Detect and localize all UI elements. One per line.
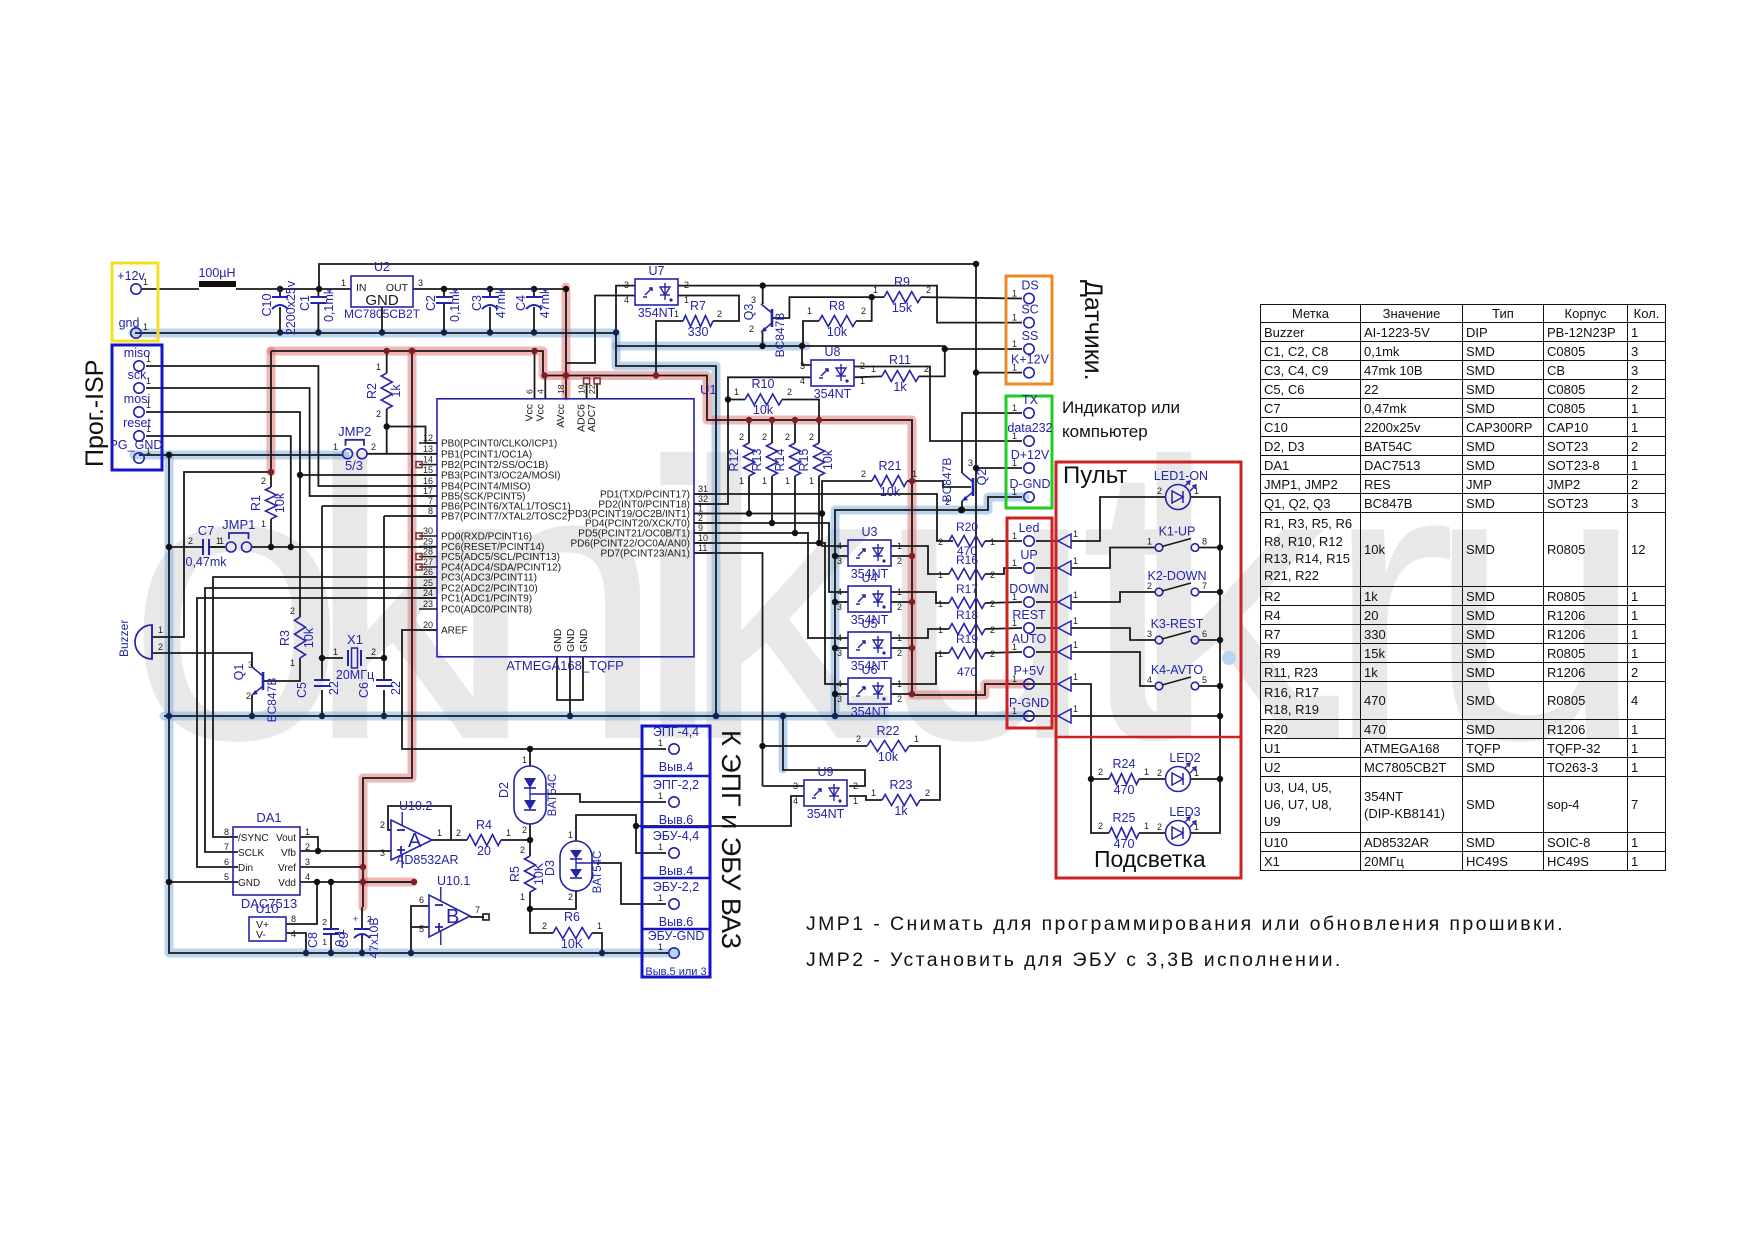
svg-text:15k: 15k [892,301,913,315]
svg-text:4: 4 [793,796,798,806]
capacitor C8 [306,917,347,948]
svg-text:1: 1 [1073,556,1078,566]
svg-text:JMP1 - Снимать для программиро: JMP1 - Снимать для программирования или … [806,913,1565,935]
D+12V wire [976,467,1022,469]
TX wire to Q2 collector [962,413,1022,473]
svg-text:R15: R15 [797,448,811,471]
svg-text:1: 1 [871,788,876,798]
optocoupler U3 [837,525,902,581]
svg-text:6: 6 [419,895,424,905]
svg-text:2: 2 [990,570,995,580]
svg-text:1: 1 [143,277,148,287]
svg-text:1: 1 [1012,403,1017,413]
capacitor C5 [295,680,341,698]
ISP miso wire [146,366,437,486]
svg-text:2: 2 [787,387,792,397]
ISP programming connector (blue) [110,345,163,470]
svg-text:1: 1 [658,842,663,852]
svg-text:1: 1 [1012,458,1017,468]
indicator connector (green) [1006,393,1053,508]
svg-text:20: 20 [423,620,433,630]
PD3 line to U3 [694,476,848,546]
svg-text:DS: DS [1021,279,1038,293]
svg-text:1: 1 [1012,431,1017,441]
svg-text:GND: GND [578,628,590,652]
svg-text:1: 1 [261,519,266,529]
remote: led line [1071,497,1165,541]
svg-text:1: 1 [914,734,919,744]
svg-text:1: 1 [1073,640,1078,650]
svg-text:GND: GND [552,628,564,652]
svg-text:1: 1 [658,893,663,903]
svg-text:ATMEGA168_TQFP: ATMEGA168_TQFP [506,658,624,673]
notes JMP1 JMP2 [806,913,1565,971]
svg-text:C10: C10 [260,293,274,316]
+5V net highlight (red) [271,287,1025,907]
svg-text:1: 1 [1194,822,1199,832]
svg-text:1: 1 [146,400,151,410]
Q2 base R21 line [907,481,971,487]
GND main bus [164,715,1022,717]
svg-text:1: 1 [597,921,602,931]
svg-text:V-: V- [256,929,266,941]
svg-text:27: 27 [423,557,433,567]
svg-text:Q2: Q2 [975,469,989,486]
svg-text:7: 7 [1202,581,1207,591]
svg-text:R20: R20 [956,520,978,534]
svg-text:R2: R2 [365,383,379,399]
svg-text:12: 12 [423,433,433,443]
svg-text:1: 1 [522,755,527,765]
svg-text:100µH: 100µH [198,266,235,280]
R9 to DS [921,297,1022,298]
svg-text:1: 1 [1012,531,1017,541]
svg-text:7: 7 [428,496,433,506]
svg-text:1: 1 [938,599,943,609]
svg-text:32: 32 [698,494,708,504]
svg-text:2: 2 [739,432,744,442]
switch K3-REST [1147,617,1207,644]
DA1 GND wire [169,881,238,883]
svg-text:1: 1 [158,625,163,635]
resistor R22 [856,724,919,764]
svg-text:K2-DOWN: K2-DOWN [1147,569,1206,583]
voltage regulator U2 [341,260,423,333]
svg-text:ADC7: ADC7 [586,404,598,432]
svg-text:ЭБУ-2,2: ЭБУ-2,2 [653,880,699,894]
svg-text:Vfb: Vfb [281,848,296,859]
GND bus A [135,333,716,716]
svg-text:LED2: LED2 [1169,751,1200,765]
svg-text:1: 1 [146,354,151,364]
backlight resistor wires [1139,779,1165,833]
svg-text:2: 2 [809,432,814,442]
svg-text:1: 1 [219,536,224,546]
PD4 line to U4 [694,476,848,592]
svg-text:1: 1 [1012,592,1017,602]
svg-text:4: 4 [800,376,805,386]
capacitor C6 [357,680,403,698]
svg-text:K4-AVTO: K4-AVTO [1151,663,1204,677]
svg-text:1: 1 [1012,706,1017,716]
svg-text:8: 8 [224,827,229,837]
svg-text:JMP2 - Установить для ЭБУ с 3,: JMP2 - Установить для ЭБУ с 3,3В исполне… [806,949,1343,971]
sensors connector (orange) [1006,276,1052,384]
optocoupler U4 [837,571,902,627]
inductor 100uH [198,266,236,287]
svg-text:2: 2 [762,432,767,442]
svg-text:Выв.6: Выв.6 [659,915,693,929]
label Podsvetka [1094,846,1206,872]
svg-text:4: 4 [305,872,310,882]
svg-text:1: 1 [897,587,902,597]
switch K2-DOWN [1147,569,1207,596]
ISP sck wire [146,388,437,496]
svg-text:BC847B: BC847B [773,313,787,358]
svg-text:Vcc: Vcc [534,404,546,422]
resistor R21 [861,459,917,499]
svg-text:354NT: 354NT [814,387,852,401]
svg-text:4: 4 [535,389,545,394]
diode D2 BAT54C [497,755,559,835]
svg-text:PB3(PCINT3/OC2A/MOSI): PB3(PCINT3/OC2A/MOSI) [441,471,560,482]
svg-text:2: 2 [990,649,995,659]
R2 / JMP2 / PB0 PB1 wires [367,351,437,454]
svg-text:470: 470 [957,665,977,679]
svg-text:U4: U4 [862,571,878,585]
svg-text:1: 1 [1012,674,1017,684]
AREF wire to EPG-4,4 [402,630,666,749]
svg-text:U7: U7 [649,264,665,278]
svg-text:1: 1 [333,442,338,452]
svg-text:GND: GND [238,878,260,889]
U8 pin4 wire to PD2 / R10 [694,377,811,504]
buzzer / Q1 wires [152,653,252,716]
svg-text:23: 23 [423,599,433,609]
label K EPG i EBU VAZ [716,730,746,949]
resistor R6 [542,910,602,951]
svg-text:ЭПГ-2,2: ЭПГ-2,2 [653,778,699,792]
svg-text:C7: C7 [198,523,215,538]
svg-text:10k: 10k [302,627,316,648]
remote: auto line [1071,652,1155,686]
svg-text:1: 1 [990,537,995,547]
svg-text:ЭБУ-GND: ЭБУ-GND [648,929,705,943]
svg-text:10k: 10k [880,485,901,499]
PD7 wire to U9 [694,553,763,786]
svg-text:1: 1 [658,738,663,748]
capacitor C9 [337,914,381,958]
transistor Q1 [232,660,279,722]
svg-text:354NT: 354NT [638,306,676,320]
svg-text:3: 3 [624,280,629,290]
svg-text:4: 4 [837,541,842,551]
GND lower bus [169,455,668,953]
svg-text:SC: SC [1021,303,1038,317]
svg-text:Vdd: Vdd [278,878,296,889]
svg-text:3: 3 [793,781,798,791]
svg-text:0,47mk: 0,47mk [186,555,228,569]
svg-text:Vout: Vout [276,833,296,844]
svg-text:Vref: Vref [278,863,296,874]
svg-text:1: 1 [938,649,943,659]
svg-text:2: 2 [856,734,861,744]
svg-text:U10: U10 [256,902,279,916]
svg-text:11: 11 [698,543,707,553]
svg-text:1: 1 [506,828,511,838]
svg-text:2: 2 [380,820,385,830]
svg-text:1: 1 [1012,618,1017,628]
svg-text:U2: U2 [374,260,390,274]
R21 left wire to PD3 area [822,481,872,514]
svg-text:C2: C2 [424,295,438,311]
svg-text:354NT: 354NT [851,705,889,719]
svg-text:PC3(ADC3/PCINT11): PC3(ADC3/PCINT11) [441,573,537,584]
svg-text:SCLK: SCLK [238,848,264,859]
DA1 Vdd wire [300,881,414,883]
svg-text:7: 7 [475,905,480,915]
svg-text:1: 1 [871,364,876,374]
watermark [127,380,1646,822]
svg-text:U10.2: U10.2 [399,799,432,813]
svg-text:R4: R4 [476,818,492,832]
svg-text:ЭПГ-4,4: ЭПГ-4,4 [653,725,699,739]
svg-text:2: 2 [861,469,866,479]
svg-text:UP: UP [1020,548,1037,562]
svg-text:+12v: +12v [117,269,145,283]
U10 supply box [249,902,296,941]
remote: +5 to backlight [1071,684,1109,833]
P+5V / P-GND pin wires [1022,684,1036,716]
resistor R10 [734,377,792,417]
svg-text:Q1: Q1 [232,664,246,681]
svg-text:R12: R12 [727,448,741,471]
svg-text:U10.1: U10.1 [437,874,470,888]
svg-text:1: 1 [1012,313,1017,323]
reset / JMP1 line [169,546,437,548]
svg-text:C8: C8 [306,932,320,948]
svg-text:16: 16 [423,476,433,486]
svg-text:1: 1 [290,658,295,668]
D3 tap to EBU-2,2 [597,863,666,904]
DA1 Vref wire [300,866,363,868]
svg-text:22: 22 [389,681,403,695]
svg-text:1: 1 [143,322,148,332]
svg-text:SS: SS [1022,329,1039,343]
remote: up line [1071,548,1155,569]
svg-text:1: 1 [1073,616,1078,626]
svg-text:3: 3 [837,602,842,612]
svg-text:5/3: 5/3 [345,458,363,473]
svg-text:2: 2 [456,828,461,838]
resistor R2 [365,362,403,419]
wire U2 output +5V rail [413,289,566,376]
svg-text:1: 1 [684,295,689,305]
label sensors [1079,280,1107,381]
resistor R3 [278,606,316,668]
remote: gnd rail [1071,715,1220,717]
D-GND wire [835,497,1022,716]
svg-text:2: 2 [376,409,381,419]
svg-text:2: 2 [246,691,251,701]
svg-text:REST: REST [1012,608,1046,622]
label indicator [1062,398,1180,441]
svg-text:P+5V: P+5V [1014,664,1046,678]
U7 pin3 wire to GND [616,286,635,333]
svg-text:2: 2 [717,309,722,319]
svg-text:1: 1 [146,376,151,386]
svg-text:1: 1 [762,476,767,486]
svg-text:1: 1 [305,827,310,837]
SS wire [945,348,1022,350]
+12V top rail to sensors [319,264,976,716]
R1 wires [270,472,272,547]
svg-text:Выв.4: Выв.4 [659,760,693,774]
D3 bottom wire [530,890,576,909]
svg-text:R21: R21 [879,459,902,473]
svg-text:2: 2 [990,599,995,609]
capacitor C7 [186,523,228,569]
remote pin arrows [1058,529,1078,723]
svg-text:2: 2 [158,642,163,652]
svg-text:AD8532AR: AD8532AR [396,853,459,867]
svg-text:C9: C9 [337,932,351,948]
svg-text:PC1(ADC1/PCINT9): PC1(ADC1/PCINT9) [441,594,532,605]
svg-text:Выв.5 или 3: Выв.5 или 3 [645,966,706,978]
resistors R20 R16 R17 R18 R19 [938,520,995,679]
svg-text:2: 2 [371,647,376,657]
switch K1-UP [1147,525,1207,552]
opto GND pin3 stubs on D-GND vertical [835,556,848,694]
svg-text:47mk: 47mk [494,287,508,318]
diode D3 BAT54C [543,830,604,902]
svg-text:3: 3 [837,648,842,658]
svg-text:1: 1 [568,830,573,840]
LED LED2 [1157,751,1201,792]
svg-text:2: 2 [367,914,372,924]
svg-text:Прог.-ISP: Прог.-ISP [81,360,109,467]
svg-text:PB7(PCINT7/XTAL2/TOSC2): PB7(PCINT7/XTAL2/TOSC2) [441,512,571,523]
svg-text:6: 6 [1202,629,1207,639]
svg-text:PB1(PCINT1/OC1A): PB1(PCINT1/OC1A) [441,449,532,460]
svg-text:28: 28 [423,547,433,557]
svg-text:Buzzer: Buzzer [117,620,131,657]
label Prog.-ISP [81,360,109,467]
opto pin1 wires to resistors [891,546,949,684]
DAC DA1 [224,810,310,911]
svg-text:AVcc: AVcc [555,404,567,428]
svg-text:4: 4 [837,679,842,689]
label Pult [1063,462,1127,489]
svg-text:1: 1 [809,476,814,486]
svg-text:1: 1 [376,362,381,372]
U8 pin1 to R11 [854,375,882,378]
svg-text:1: 1 [146,446,151,456]
capacitor C10 [260,280,298,335]
buzzer [117,620,163,659]
remote: rest line [1071,628,1155,640]
svg-text:1: 1 [912,469,917,479]
svg-text:U6: U6 [862,663,878,677]
svg-text:1: 1 [873,285,878,295]
svg-text:1: 1 [938,570,943,580]
D3 top wire to EBU-4,4 [576,815,666,853]
svg-text:2: 2 [897,694,902,704]
svg-text:1: 1 [1073,529,1078,539]
svg-text:0,1mk: 0,1mk [322,287,336,322]
Q3 emitter to GND [762,332,764,346]
switch K4-AVTO [1147,663,1207,690]
svg-text:3: 3 [418,278,423,288]
svg-text:470: 470 [1114,783,1135,797]
svg-text:Led: Led [1019,521,1040,535]
MCU U1 ATMEGA168 [419,382,717,673]
svg-text:PD0(RXD/PCINT16): PD0(RXD/PCINT16) [441,532,532,543]
svg-text:5: 5 [1202,675,1207,685]
jumper JMP2 [333,424,376,473]
svg-text:8: 8 [428,506,433,516]
svg-text:15: 15 [423,465,433,475]
svg-text:2: 2 [522,825,527,835]
svg-text:R25: R25 [1113,811,1136,825]
svg-text:R19: R19 [956,632,978,646]
svg-text:R3: R3 [278,630,292,646]
capacitor C4 [514,285,552,333]
svg-text:1: 1 [322,937,327,947]
svg-text:10k: 10k [753,403,774,417]
svg-text:R16: R16 [956,553,978,567]
svg-text:R9: R9 [894,275,910,289]
svg-text:1: 1 [860,376,865,386]
svg-text:31: 31 [698,484,708,494]
svg-text:10k: 10k [878,750,899,764]
EPG/EBU connector (blue) [642,725,710,978]
svg-text:3: 3 [751,295,756,305]
svg-text:2: 2 [261,476,266,486]
remote: right rail [1191,497,1220,833]
svg-text:R11: R11 [889,353,911,367]
svg-text:компьютер: компьютер [1062,422,1148,441]
svg-text:1: 1 [853,796,858,806]
resistor R5 [508,845,546,902]
svg-text:1: 1 [739,476,744,486]
svg-text:1: 1 [674,309,679,319]
svg-text:PC5(ADC5/SCL/PCINT13): PC5(ADC5/SCL/PCINT13) [441,552,560,563]
svg-text:C5: C5 [295,682,309,698]
svg-text:1: 1 [938,625,943,635]
svg-text:26: 26 [423,567,433,577]
svg-text:U3: U3 [862,525,878,539]
svg-text:TX: TX [1022,393,1039,407]
svg-text:C4: C4 [514,295,528,311]
svg-text:R14: R14 [773,448,787,471]
svg-text:R22: R22 [877,724,900,738]
optocoupler U9 [793,765,858,821]
svg-text:1k: 1k [894,804,908,818]
svg-text:sck: sck [128,368,148,382]
svg-text:ЭБУ-4,4: ЭБУ-4,4 [653,829,699,843]
svg-text:1: 1 [897,541,902,551]
+12V input connector (yellow) [112,263,158,341]
optocoupler U5 [837,617,902,673]
svg-text:2: 2 [924,364,929,374]
svg-text:2: 2 [925,788,930,798]
svg-text:2: 2 [938,537,943,547]
svg-text:1k: 1k [893,380,907,394]
svg-text:5: 5 [419,924,424,934]
svg-text:14: 14 [423,455,433,465]
pullup R12-R15 top wires [749,420,819,443]
